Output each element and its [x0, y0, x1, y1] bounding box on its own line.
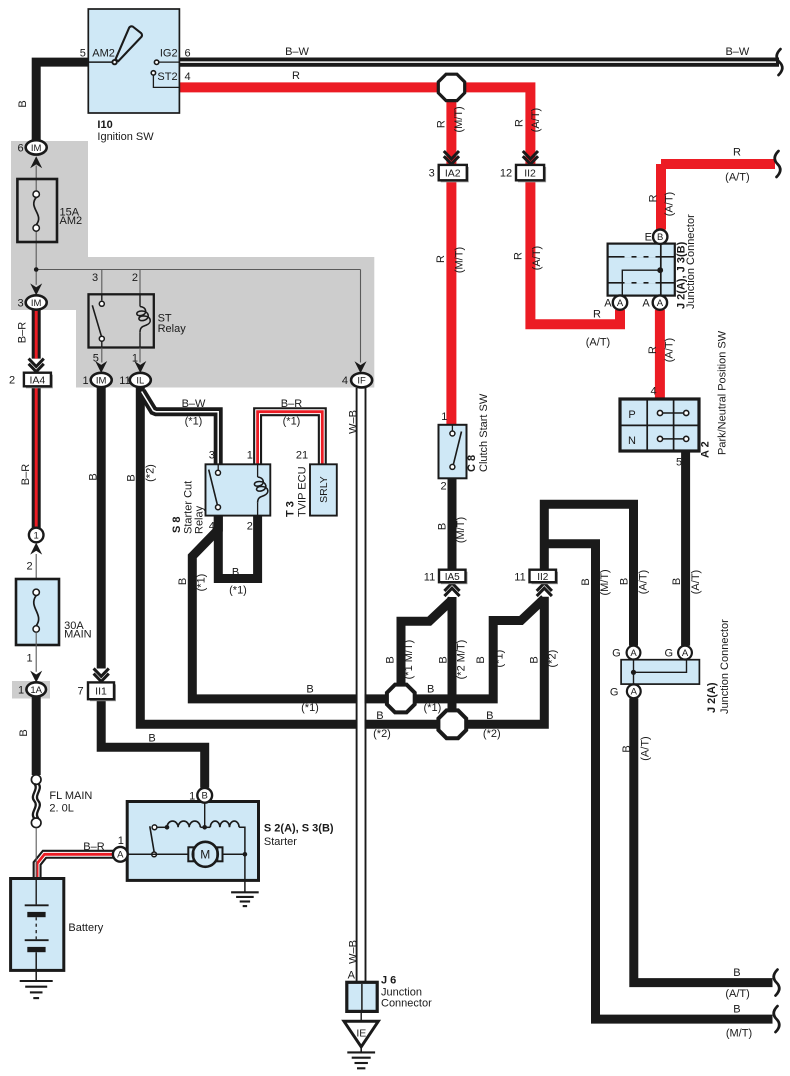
svg-text:3: 3 [209, 450, 215, 462]
svg-text:Junction Connector: Junction Connector [685, 214, 697, 309]
svg-text:B: B [733, 967, 740, 979]
svg-text:B: B [376, 710, 383, 722]
svg-text:B: B [438, 656, 450, 663]
svg-text:Clutch Start SW: Clutch Start SW [478, 393, 490, 472]
svg-text:1: 1 [132, 353, 138, 365]
svg-text:3: 3 [92, 272, 98, 284]
svg-text:2: 2 [9, 375, 15, 387]
svg-text:4: 4 [209, 521, 215, 533]
svg-text:R: R [514, 119, 526, 127]
svg-text:Starter: Starter [264, 836, 297, 848]
svg-text:A: A [642, 298, 650, 310]
svg-text:2: 2 [132, 272, 138, 284]
svg-text:(A/T): (A/T) [725, 172, 749, 184]
svg-text:II2: II2 [524, 167, 536, 179]
svg-text:W–B: W–B [348, 940, 360, 964]
svg-text:N: N [628, 435, 636, 447]
svg-text:5: 5 [80, 48, 86, 60]
svg-text:1: 1 [247, 450, 253, 462]
svg-text:B: B [306, 683, 313, 695]
svg-text:B: B [486, 710, 493, 722]
svg-text:S 8: S 8 [171, 516, 183, 533]
svg-text:B: B [232, 567, 239, 579]
svg-text:6: 6 [185, 48, 191, 60]
svg-text:IA4: IA4 [30, 374, 46, 386]
svg-text:A: A [682, 648, 689, 659]
svg-text:3: 3 [18, 298, 24, 310]
svg-text:(*2): (*2) [546, 650, 558, 668]
svg-text:1: 1 [441, 411, 447, 423]
svg-text:(*1): (*1) [301, 702, 319, 714]
svg-text:II2: II2 [537, 572, 549, 583]
svg-text:A: A [630, 648, 637, 659]
svg-text:B: B [619, 578, 631, 585]
svg-text:IG2: IG2 [160, 48, 178, 60]
svg-text:(A/T): (A/T) [725, 988, 749, 1000]
svg-text:Battery: Battery [68, 922, 103, 934]
svg-text:(*2): (*2) [483, 728, 501, 740]
svg-text:(*1): (*1) [283, 416, 301, 428]
svg-text:(*2): (*2) [373, 728, 391, 740]
svg-text:(A/T): (A/T) [664, 192, 676, 216]
svg-text:A: A [348, 970, 356, 982]
svg-text:(M/T): (M/T) [453, 106, 465, 132]
svg-text:B: B [657, 232, 663, 243]
svg-text:(M/T): (M/T) [454, 247, 466, 273]
svg-text:Relay: Relay [158, 323, 187, 335]
svg-text:11: 11 [514, 571, 525, 583]
svg-text:B: B [529, 656, 541, 663]
svg-text:(*1): (*1) [185, 416, 203, 428]
svg-text:Junction Connector: Junction Connector [719, 619, 731, 714]
svg-text:(M/T): (M/T) [455, 517, 467, 543]
svg-text:IM: IM [96, 375, 107, 386]
svg-text:C 8: C 8 [466, 455, 478, 472]
svg-text:IA5: IA5 [445, 572, 460, 583]
svg-text:11: 11 [424, 571, 435, 583]
svg-text:B: B [202, 791, 208, 802]
svg-text:B–W: B–W [725, 46, 749, 58]
svg-text:ST2: ST2 [157, 71, 177, 83]
svg-text:21: 21 [296, 450, 308, 462]
svg-text:R: R [436, 120, 448, 128]
svg-text:R: R [435, 255, 447, 263]
svg-text:J 2(A): J 2(A) [706, 682, 718, 713]
svg-text:B: B [733, 1004, 740, 1016]
svg-text:Relay: Relay [193, 505, 205, 534]
svg-text:B: B [671, 578, 683, 585]
svg-text:2: 2 [440, 480, 446, 492]
svg-text:3: 3 [429, 168, 435, 180]
svg-text:B–R: B–R [281, 398, 302, 410]
svg-text:4: 4 [342, 375, 348, 387]
svg-text:12: 12 [500, 168, 512, 180]
svg-text:(A/T): (A/T) [638, 570, 650, 594]
svg-text:2. 0L: 2. 0L [49, 803, 73, 815]
svg-text:B: B [18, 729, 30, 736]
svg-text:(A/T): (A/T) [690, 570, 702, 594]
svg-text:A: A [631, 687, 638, 698]
svg-text:(A/T): (A/T) [664, 338, 676, 362]
svg-text:6: 6 [18, 143, 24, 155]
svg-text:Park/Neutral Position SW: Park/Neutral Position SW [717, 330, 729, 455]
svg-text:J 6: J 6 [381, 974, 396, 986]
svg-text:B: B [17, 100, 29, 107]
svg-text:1A: 1A [30, 685, 42, 696]
svg-text:G: G [612, 647, 621, 659]
svg-text:(*1): (*1) [493, 650, 505, 668]
svg-text:B: B [580, 578, 592, 585]
svg-text:G: G [610, 686, 619, 698]
svg-text:W–B: W–B [348, 410, 360, 434]
svg-text:1: 1 [118, 835, 124, 847]
svg-text:IL: IL [136, 375, 144, 386]
svg-text:(*2): (*2) [145, 464, 157, 482]
svg-text:R: R [647, 194, 659, 202]
svg-text:B–R: B–R [17, 322, 29, 343]
svg-text:B: B [475, 656, 487, 663]
svg-text:R: R [292, 70, 300, 82]
svg-text:A: A [617, 298, 624, 309]
svg-text:1: 1 [18, 684, 24, 696]
svg-text:P: P [628, 409, 635, 421]
svg-text:SRLY: SRLY [318, 476, 330, 503]
svg-text:B: B [148, 732, 155, 744]
svg-text:T 3: T 3 [285, 501, 297, 517]
svg-text:B: B [88, 473, 100, 480]
svg-text:IE: IE [356, 1028, 366, 1040]
svg-text:(*1 M/T): (*1 M/T) [403, 640, 415, 680]
svg-text:4: 4 [185, 71, 191, 83]
svg-text:AM2: AM2 [60, 215, 83, 227]
svg-text:Connector: Connector [381, 998, 432, 1010]
svg-text:(*1): (*1) [229, 585, 247, 597]
svg-text:B–R: B–R [83, 841, 104, 853]
svg-text:IA2: IA2 [445, 167, 461, 179]
svg-text:MAIN: MAIN [64, 629, 92, 641]
svg-text:11: 11 [119, 375, 130, 387]
svg-text:1: 1 [189, 790, 195, 802]
svg-text:2: 2 [247, 521, 253, 533]
svg-text:1: 1 [82, 375, 88, 387]
svg-text:A: A [117, 850, 124, 861]
svg-text:Ignition SW: Ignition SW [97, 131, 154, 143]
svg-text:B: B [621, 745, 633, 752]
svg-text:(M/T): (M/T) [599, 569, 611, 595]
svg-text:B: B [126, 474, 138, 481]
svg-text:(*1): (*1) [424, 702, 442, 714]
svg-text:B: B [177, 578, 189, 585]
svg-text:(A/T): (A/T) [640, 736, 652, 760]
svg-text:R: R [513, 252, 525, 260]
svg-text:AM2: AM2 [92, 48, 115, 60]
svg-text:M: M [200, 848, 210, 862]
svg-text:G: G [664, 647, 673, 659]
svg-text:1: 1 [34, 530, 39, 541]
svg-text:5: 5 [676, 456, 682, 468]
svg-text:2: 2 [27, 561, 33, 573]
svg-text:B: B [385, 656, 397, 663]
svg-text:E: E [645, 232, 652, 244]
svg-text:(M/T): (M/T) [726, 1027, 752, 1039]
svg-text:7: 7 [77, 686, 83, 698]
svg-text:5: 5 [93, 353, 99, 365]
svg-text:S 2(A), S 3(B): S 2(A), S 3(B) [264, 823, 334, 835]
svg-text:R: R [733, 147, 741, 159]
svg-text:(A/T): (A/T) [530, 108, 542, 132]
svg-text:B: B [437, 523, 449, 530]
svg-text:R: R [647, 346, 659, 354]
svg-text:4: 4 [650, 386, 656, 398]
svg-text:1: 1 [27, 653, 33, 665]
svg-text:A: A [657, 298, 664, 309]
svg-text:IF: IF [357, 376, 366, 387]
svg-text:(*2 M/T): (*2 M/T) [456, 640, 468, 680]
svg-text:IM: IM [31, 143, 42, 154]
svg-text:A: A [604, 298, 612, 310]
svg-text:(A/T): (A/T) [586, 337, 610, 349]
svg-text:B–W: B–W [285, 46, 309, 58]
svg-text:R: R [593, 309, 601, 321]
svg-text:II1: II1 [95, 686, 107, 698]
svg-text:FL MAIN: FL MAIN [49, 790, 92, 802]
svg-text:IM: IM [31, 298, 42, 309]
svg-text:(A/T): (A/T) [531, 246, 543, 270]
svg-text:A 2: A 2 [700, 441, 712, 458]
svg-text:B: B [427, 683, 434, 695]
svg-text:I10: I10 [97, 119, 112, 131]
svg-text:B–R: B–R [20, 464, 32, 485]
svg-text:(*1): (*1) [196, 574, 208, 592]
svg-text:B–W: B–W [182, 398, 206, 410]
svg-text:TVIP ECU: TVIP ECU [296, 466, 308, 517]
